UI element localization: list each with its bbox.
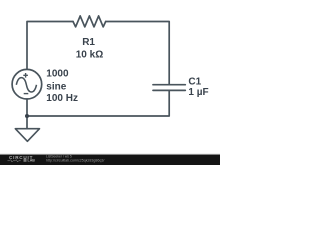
CircuitLab logo waveform — [8, 160, 21, 162]
wire: left vertical + top horizontal to resistor — [27, 22, 73, 70]
svg-text:sine: sine — [46, 82, 66, 93]
svg-text:1000: 1000 — [46, 69, 69, 80]
voltage source V1 circle — [12, 69, 42, 99]
CircuitLab logo LAB — [24, 159, 27, 162]
svg-text:LAB: LAB — [28, 159, 36, 163]
plus terminal mark — [23, 73, 28, 78]
svg-text:C1: C1 — [188, 77, 201, 88]
footer bar — [0, 155, 220, 165]
wire: source bottom to junction to ground — [26, 99, 28, 129]
ground — [15, 129, 39, 142]
capacitor C1 top plate — [153, 84, 185, 86]
junction node — [25, 114, 29, 118]
svg-text:1 µF: 1 µF — [188, 87, 208, 98]
svg-text:100 Hz: 100 Hz — [46, 93, 78, 104]
wire: resistor to top-right corner down to capacitor — [106, 22, 170, 85]
capacitor C1 bottom plate — [153, 89, 185, 91]
minus terminal mark — [24, 93, 29, 95]
svg-text:10 kΩ: 10 kΩ — [76, 49, 103, 60]
svg-text:http://circuitlab.com/c25qkz83: http://circuitlab.com/c25qkz83g86q3/ — [46, 158, 104, 162]
sine symbol — [16, 78, 36, 92]
wire: capacitor bottom to bottom-right corner to junction — [27, 90, 169, 116]
resistor R1 — [73, 16, 106, 27]
svg-text:R1: R1 — [82, 37, 95, 48]
